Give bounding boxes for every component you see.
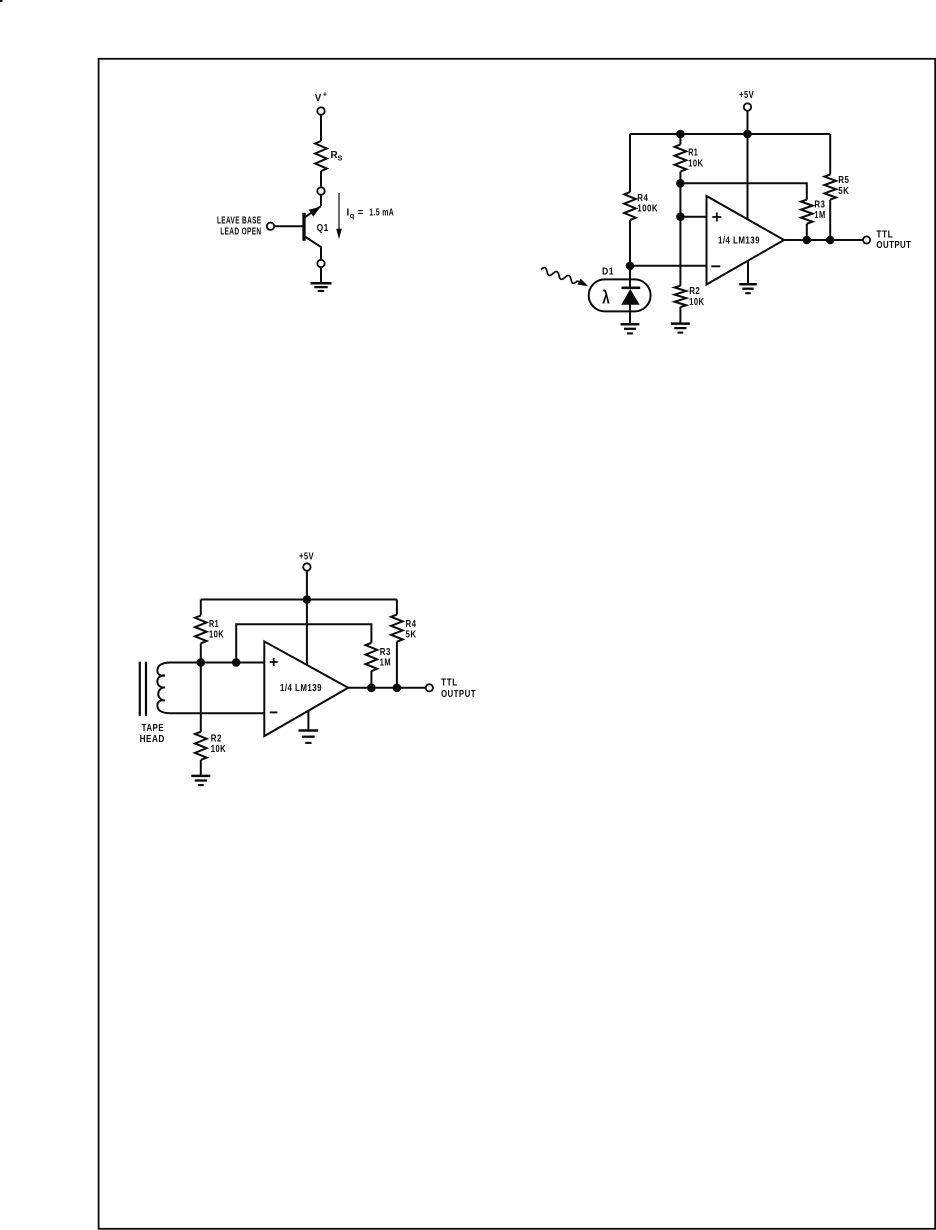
output wire (circuit 2) bbox=[784, 239, 863, 241]
terminal +5V (circuit 2) bbox=[744, 103, 751, 110]
junction node A bbox=[676, 179, 685, 188]
svg-text:R1: R1 bbox=[209, 618, 219, 629]
resistor R4 100K bbox=[624, 192, 636, 220]
op-amp U2 1/4 LM139 (circuit 3) bbox=[264, 641, 348, 736]
label TTL OUTPUT (circuit 2) bbox=[876, 229, 911, 250]
wire rail to R1 (circuit 3) bbox=[200, 600, 202, 616]
junction output R3 bbox=[803, 236, 812, 245]
svg-text:HEAD: HEAD bbox=[140, 733, 165, 744]
terminal base open bbox=[267, 223, 274, 230]
junction feedback tap (circuit 3) bbox=[232, 658, 241, 667]
resistor R2 10K (circuit 2) bbox=[675, 286, 687, 307]
svg-text:1.5 mA: 1.5 mA bbox=[369, 206, 394, 218]
svg-text:1/4 LM139: 1/4 LM139 bbox=[280, 682, 322, 693]
ground for Q1 bbox=[311, 283, 332, 291]
op-amp U1 1/4 LM139 (circuit 2) bbox=[707, 196, 785, 285]
wire rail corner down to R4 (circuit 3) bbox=[396, 600, 398, 615]
resistor RS bbox=[315, 141, 327, 171]
top rail (circuit 3) bbox=[201, 599, 397, 601]
wire +5V down to op-amp V+ pin bbox=[747, 111, 749, 219]
photodiode D1 package bbox=[589, 279, 651, 311]
label R3 1M bbox=[814, 199, 825, 221]
feedback wire to R3 (circuit 3) bbox=[236, 624, 371, 662]
resistor R1 10K bbox=[675, 145, 687, 172]
label RS bbox=[331, 150, 343, 162]
wire rail down to R4 bbox=[629, 134, 631, 192]
transistor Q1 emitter lead with arrow bbox=[304, 206, 321, 218]
svg-text:TAPE: TAPE bbox=[142, 722, 164, 733]
svg-text:R4: R4 bbox=[406, 618, 417, 629]
ground under op-amp (circuit 2) bbox=[739, 284, 757, 293]
diode D1 cathode bar bbox=[622, 286, 641, 289]
junction output R4 (circuit 3) bbox=[393, 684, 402, 693]
svg-text:R5: R5 bbox=[838, 174, 849, 185]
label LEAVE BASE LEAD OPEN bbox=[217, 214, 262, 237]
label R1 10K (circuit 3) bbox=[209, 618, 224, 640]
resistor R4 5K (circuit 3) bbox=[391, 615, 403, 642]
wire R2 to ground (circuit 2) bbox=[679, 307, 681, 323]
svg-text:5K: 5K bbox=[838, 185, 849, 196]
label TAPE HEAD bbox=[140, 722, 165, 744]
tape head gap bars bbox=[140, 662, 146, 716]
junction divider plus node (circuit 3) bbox=[197, 658, 206, 667]
wire rail to R1 bbox=[679, 134, 681, 145]
wire V+ to RS bbox=[320, 115, 322, 141]
wire node A to plus node bbox=[679, 183, 681, 216]
svg-text:LEAVE BASE: LEAVE BASE bbox=[217, 214, 262, 226]
svg-text:10K: 10K bbox=[211, 743, 226, 754]
wire op-amp ground pin (circuit 3) bbox=[307, 711, 309, 730]
wire R1 to node A bbox=[679, 172, 681, 184]
label TTL OUTPUT (circuit 3) bbox=[441, 677, 476, 699]
feedback wire node A to R3 bbox=[680, 183, 806, 199]
svg-text:D1: D1 bbox=[602, 266, 614, 277]
svg-text:OUTPUT: OUTPUT bbox=[441, 688, 476, 699]
wire op-amp ground pin (circuit 2) bbox=[747, 260, 749, 283]
junction +5V on rail (circuit 3) bbox=[303, 595, 312, 604]
svg-text:10K: 10K bbox=[209, 628, 224, 639]
transistor Q1 collector lead bbox=[304, 236, 321, 259]
corner registration mark bbox=[0, 0, 3, 2]
tape head coil and input wires bbox=[157, 662, 264, 713]
svg-text:+5V: +5V bbox=[739, 89, 754, 100]
current arrow Iq bbox=[336, 193, 342, 239]
svg-text:1M: 1M bbox=[380, 656, 391, 667]
label R3 1M (circuit 3) bbox=[380, 646, 391, 668]
wire R1 to plus node (circuit 3) bbox=[200, 643, 202, 662]
resistor R1 10K (circuit 3) bbox=[195, 616, 207, 644]
terminal TTL output (circuit 2) bbox=[863, 236, 870, 243]
label R1 10K bbox=[688, 146, 703, 168]
svg-text:10K: 10K bbox=[688, 157, 703, 168]
svg-text:1/4 LM139: 1/4 LM139 bbox=[718, 235, 760, 246]
svg-text:V: V bbox=[315, 93, 322, 104]
label R5 5K bbox=[838, 174, 849, 196]
label +5V (circuit 2) bbox=[739, 89, 754, 100]
svg-text:LEAD OPEN: LEAD OPEN bbox=[220, 225, 261, 237]
wire plus node down across to R2 bbox=[679, 217, 681, 286]
wire plus node to op-amp bbox=[680, 216, 706, 218]
svg-text:Q1: Q1 bbox=[317, 222, 329, 233]
ground under R2 (circuit 2) bbox=[671, 324, 690, 333]
resistor R2 10K (circuit 3) bbox=[195, 732, 207, 760]
op-amp plus sign (circuit 3) bbox=[270, 658, 278, 666]
wire minus node to op-amp bbox=[630, 265, 707, 267]
op-amp minus sign (circuit 3) bbox=[270, 711, 278, 713]
svg-text:+5V: +5V bbox=[299, 551, 314, 562]
wire base lead bbox=[274, 225, 304, 227]
wire terminal to Q1 emitter bbox=[320, 195, 322, 206]
svg-text:R4: R4 bbox=[637, 192, 648, 203]
wire terminal to ground bbox=[320, 267, 322, 282]
output wire (circuit 3) bbox=[348, 687, 425, 689]
wire R3 to output node bbox=[806, 224, 808, 240]
wire plus node down to R2 (circuit 3) bbox=[200, 663, 202, 732]
label R4 5K (circuit 3) bbox=[406, 618, 417, 640]
wire R4 to D1 node bbox=[629, 220, 631, 266]
resistor R3 1M bbox=[801, 200, 813, 224]
svg-text:+: + bbox=[323, 90, 328, 99]
label 1/4 LM139 (circuit 2) bbox=[718, 235, 760, 246]
svg-text:q: q bbox=[350, 211, 355, 220]
junction output R5 bbox=[826, 236, 835, 245]
wire rail down to R5 bbox=[829, 134, 831, 175]
terminal collector bbox=[317, 187, 324, 194]
wire R3 to output (circuit 3) bbox=[370, 671, 372, 688]
label +5V (circuit 3) bbox=[299, 551, 314, 562]
svg-text:5K: 5K bbox=[406, 629, 417, 640]
label Q1 bbox=[317, 222, 329, 233]
svg-text:λ: λ bbox=[602, 288, 610, 309]
op-amp plus sign (circuit 2) bbox=[712, 213, 721, 222]
label Iq = 1.5 mA bbox=[347, 206, 395, 220]
label 1/4 LM139 (circuit 3) bbox=[280, 682, 322, 693]
svg-text:R3: R3 bbox=[380, 646, 391, 657]
label lambda bbox=[602, 288, 610, 309]
svg-text:TTL: TTL bbox=[441, 677, 458, 688]
resistor R5 5K bbox=[824, 175, 836, 200]
junction R1 top on rail bbox=[676, 130, 685, 139]
junction +5V on rail bbox=[743, 130, 752, 139]
svg-text:1M: 1M bbox=[814, 209, 825, 220]
svg-text:100K: 100K bbox=[637, 203, 658, 214]
ground under op-amp (circuit 3) bbox=[299, 731, 319, 743]
op-amp minus sign (circuit 2) bbox=[711, 265, 720, 267]
terminal V+ bbox=[317, 107, 324, 114]
diode D1 anode lead bbox=[629, 304, 631, 324]
svg-text:R2: R2 bbox=[211, 733, 222, 744]
label R2 10K (circuit 2) bbox=[689, 285, 704, 307]
wire RS to collector terminal bbox=[320, 171, 322, 187]
terminal TTL output (circuit 3) bbox=[426, 684, 433, 691]
diode D1 cathode lead bbox=[629, 266, 631, 288]
wire R5 to output node bbox=[829, 200, 831, 240]
wire R2 to ground (circuit 3) bbox=[200, 760, 202, 775]
wire +5V down to op-amp V+ pin (circuit 3) bbox=[306, 571, 308, 665]
junction D1 node bbox=[626, 262, 635, 271]
ground under D1 bbox=[621, 324, 640, 333]
svg-text:R3: R3 bbox=[814, 199, 825, 210]
node V+ label bbox=[315, 90, 328, 104]
svg-text:=: = bbox=[358, 208, 364, 219]
wire R4 to output (circuit 3) bbox=[396, 642, 398, 688]
label R4 100K bbox=[637, 192, 658, 214]
svg-text:10K: 10K bbox=[689, 296, 704, 307]
svg-text:S: S bbox=[338, 153, 343, 162]
terminal emitter-ground bbox=[317, 260, 324, 267]
svg-text:OUTPUT: OUTPUT bbox=[876, 239, 911, 250]
terminal +5V (circuit 3) bbox=[303, 563, 310, 570]
label D1 bbox=[602, 266, 614, 277]
transistor Q1 base bar bbox=[302, 213, 305, 241]
junction output R3 (circuit 3) bbox=[367, 684, 376, 693]
light arrow squiggle bbox=[541, 268, 588, 287]
svg-text:R2: R2 bbox=[689, 285, 700, 296]
top rail (circuit 2) bbox=[630, 133, 830, 135]
junction plus input node bbox=[676, 212, 685, 221]
diode D1 triangle bbox=[621, 289, 640, 305]
ground under R2 (circuit 3) bbox=[191, 776, 210, 785]
svg-text:R1: R1 bbox=[688, 146, 698, 157]
label R2 10K (circuit 3) bbox=[211, 733, 226, 755]
resistor R3 1M (circuit 3) bbox=[366, 643, 378, 671]
